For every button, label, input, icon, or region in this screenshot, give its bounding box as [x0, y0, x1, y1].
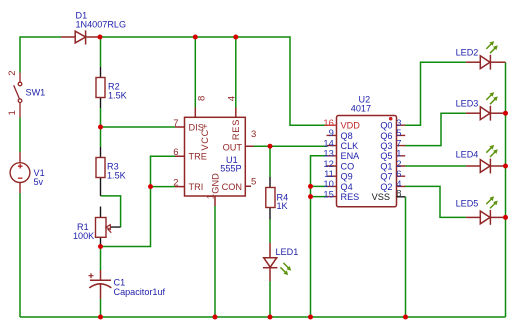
junction top rail at RES	[233, 35, 238, 40]
svg-text:CO: CO	[341, 161, 355, 171]
svg-text:15: 15	[323, 188, 333, 199]
LED4 arrows	[486, 145, 498, 157]
U2 pin-1 dot	[389, 117, 393, 121]
resistor R2	[96, 67, 105, 108]
svg-text:5: 5	[251, 176, 256, 187]
counter U2	[337, 116, 397, 207]
wire top rail to VDD	[100, 37, 328, 125]
svg-text:CON: CON	[222, 182, 242, 192]
svg-text:VDD: VDD	[341, 121, 361, 131]
op-amp U1	[185, 117, 246, 196]
junction DIS node	[98, 125, 103, 130]
wire GND drop	[214, 206, 216, 317]
wire TRI	[151, 186, 176, 188]
svg-text:RES: RES	[231, 119, 241, 140]
LED1 arrows	[280, 263, 291, 275]
svg-text:1: 1	[206, 194, 217, 199]
wire Q3 to LED3	[405, 113, 466, 145]
wire Q2 to LED5	[405, 186, 466, 217]
svg-text:TRE: TRE	[189, 152, 207, 162]
svg-text:Q1: Q1	[380, 161, 392, 171]
svg-text:8: 8	[396, 187, 401, 198]
resistor R3	[96, 147, 105, 196]
wire R4 to LED1	[269, 220, 271, 244]
svg-text:VCC+: VCC+	[200, 123, 210, 151]
junction rail GND	[213, 315, 218, 320]
svg-text:5v: 5v	[34, 177, 44, 187]
svg-text:Q0: Q0	[380, 121, 392, 131]
junction LED3 cathode	[503, 111, 508, 116]
LED5 arrows	[486, 196, 498, 208]
junction R1 bottom node	[98, 244, 103, 249]
LED3 arrows	[486, 92, 498, 104]
wire DIS	[101, 126, 176, 128]
junction rail C1	[98, 315, 103, 320]
svg-text:LED3: LED3	[456, 98, 479, 108]
wire R2 bottom	[100, 108, 102, 127]
junction ENA-RES node	[308, 194, 313, 199]
wire LED1 bottom	[269, 281, 271, 317]
junction LED5 cathode	[503, 215, 508, 220]
svg-text:LED5: LED5	[456, 198, 479, 208]
wire R4 top	[269, 146, 271, 177]
svg-text:TRI: TRI	[189, 182, 204, 192]
svg-text:VSS: VSS	[372, 192, 390, 202]
svg-text:ENA: ENA	[341, 151, 361, 161]
LED4	[466, 159, 506, 174]
diode D1	[61, 30, 100, 44]
svg-text:6: 6	[173, 147, 178, 158]
svg-text:LED4: LED4	[456, 150, 479, 160]
wire C1 bottom	[100, 299, 102, 317]
svg-text:1.5K: 1.5K	[107, 171, 126, 181]
svg-text:100K: 100K	[73, 231, 94, 241]
wire R3 top	[100, 127, 102, 147]
wire OUT to CLK	[254, 145, 328, 147]
junction ENA-Q4 node	[308, 184, 313, 189]
U2 right stubs	[397, 125, 406, 186]
junction top rail at VCC	[193, 35, 198, 40]
wire Q1 to LED4	[405, 165, 466, 167]
svg-text:1K: 1K	[277, 201, 288, 211]
potentiometer R1	[96, 207, 121, 247]
wire bottom rail	[20, 316, 506, 318]
svg-text:Q2: Q2	[380, 182, 392, 192]
wire C1 top	[100, 247, 102, 271]
svg-text:555P: 555P	[220, 163, 241, 173]
svg-text:1.5K: 1.5K	[108, 91, 127, 101]
svg-text:7: 7	[173, 118, 178, 129]
wire TRE run	[101, 156, 176, 246]
U1 right stubs	[245, 146, 253, 186]
resistor R4	[266, 177, 275, 220]
source V1	[10, 152, 30, 193]
switch SW1	[14, 73, 22, 118]
svg-text:Q6: Q6	[380, 131, 392, 141]
capacitor C1	[89, 270, 111, 299]
LED2	[466, 55, 506, 70]
svg-text:Q7: Q7	[380, 172, 392, 182]
junction LED4 cathode	[503, 164, 508, 169]
junction TRI node	[148, 184, 153, 189]
svg-text:8: 8	[197, 96, 208, 101]
svg-text:CLK: CLK	[341, 141, 359, 151]
LED1	[263, 243, 277, 281]
svg-text:Capacitor1uf: Capacitor1uf	[114, 287, 166, 297]
wire Q0 to LED2	[405, 62, 466, 125]
U1 GND stub	[214, 196, 216, 206]
svg-text:RES: RES	[341, 192, 360, 202]
svg-text:GND: GND	[211, 173, 221, 194]
svg-text:Q8: Q8	[341, 131, 353, 141]
junction rail VSS	[403, 315, 408, 320]
wire RES15	[311, 196, 328, 198]
wire VCC drop	[194, 37, 196, 108]
svg-text:Q3: Q3	[380, 141, 392, 151]
LED2 arrows	[486, 41, 498, 53]
junction rail LED1	[268, 315, 273, 320]
wire VSS run	[405, 197, 407, 317]
wire RES drop	[235, 37, 237, 108]
svg-text:Q4: Q4	[341, 182, 353, 192]
wire R2 top	[100, 37, 102, 67]
wire Q4	[311, 185, 328, 187]
svg-text:3: 3	[251, 129, 256, 140]
U1 left stubs	[175, 127, 185, 187]
svg-text:4017: 4017	[351, 103, 371, 113]
wire ENA run	[311, 156, 328, 317]
svg-text:2: 2	[7, 71, 18, 76]
svg-text:4: 4	[227, 96, 238, 101]
svg-text:1N4007RLG: 1N4007RLG	[76, 19, 127, 29]
wire V1 to rail	[19, 193, 21, 317]
svg-text:LED2: LED2	[456, 47, 479, 57]
svg-text:1: 1	[7, 110, 18, 115]
svg-text:Q5: Q5	[380, 151, 392, 161]
wire LED cathode rail	[505, 62, 507, 317]
LED3	[466, 106, 506, 121]
svg-text:OUT: OUT	[223, 142, 243, 152]
junction rail ENA	[308, 315, 313, 320]
wire R3 to wiper	[101, 196, 121, 227]
junction OUT-R4 node	[268, 144, 273, 149]
wire top rail left	[20, 37, 61, 73]
svg-text:Q9: Q9	[341, 172, 353, 182]
svg-text:2: 2	[173, 178, 178, 189]
junction top rail at D1	[98, 35, 103, 40]
wire SW1 to V1	[19, 118, 21, 153]
LED5	[466, 210, 506, 225]
U1 top stubs	[195, 108, 236, 118]
svg-text:LED1: LED1	[276, 247, 299, 257]
svg-text:SW1: SW1	[26, 87, 46, 97]
U2 left stubs	[327, 135, 337, 176]
